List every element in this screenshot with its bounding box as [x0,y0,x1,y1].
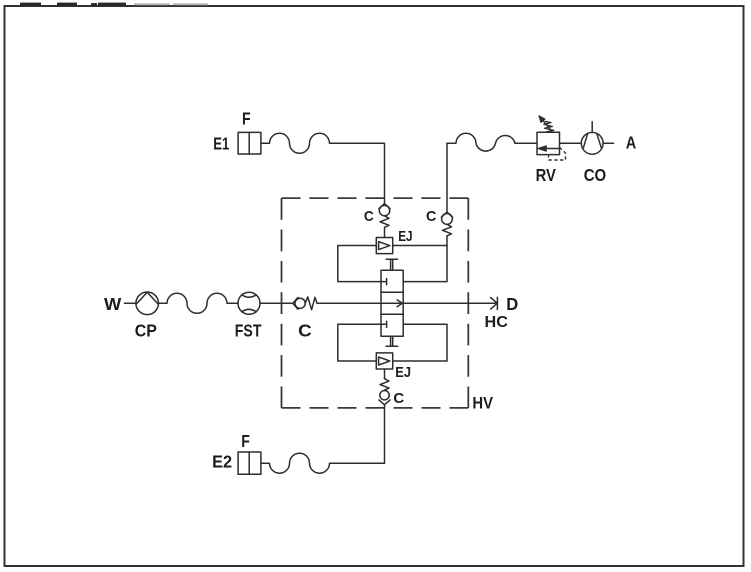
svg-text:E2: E2 [212,452,232,472]
svg-text:HV: HV [472,394,493,412]
svg-text:C: C [364,208,374,225]
svg-text:A: A [626,133,637,153]
svg-text:F: F [241,431,250,451]
svg-text:EJ: EJ [395,365,411,381]
svg-text:FST: FST [235,320,262,340]
svg-text:RV: RV [536,165,557,185]
svg-text:CP: CP [135,320,157,340]
svg-text:F: F [242,109,251,129]
svg-text:D: D [506,294,518,314]
svg-text:W: W [104,294,122,314]
svg-text:EJ: EJ [398,229,412,245]
svg-text:E1: E1 [213,133,229,153]
svg-text:CO: CO [584,165,607,185]
svg-text:C: C [298,320,312,340]
svg-text:HC: HC [485,314,509,331]
svg-text:C: C [426,208,437,225]
svg-text:C: C [393,390,404,407]
